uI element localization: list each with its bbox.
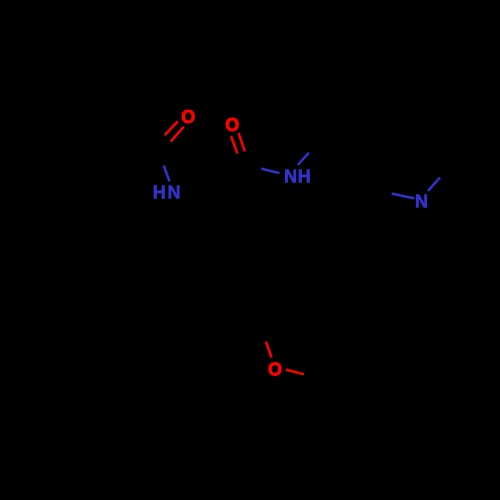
svg-text:H: H (153, 183, 166, 203)
svg-text:N: N (284, 167, 297, 187)
svg-text:O: O (268, 360, 282, 380)
svg-text:N: N (415, 192, 428, 212)
svg-text:O: O (181, 107, 195, 127)
svg-text:O: O (225, 115, 239, 135)
svg-text:N: N (168, 183, 181, 203)
svg-text:H: H (298, 167, 311, 187)
